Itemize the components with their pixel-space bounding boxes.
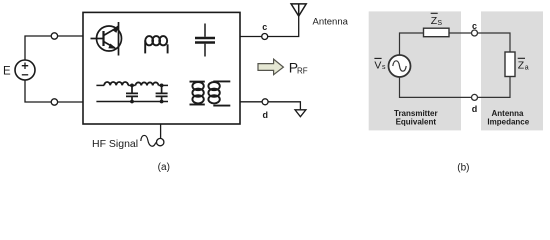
svg-text:Z: Z	[518, 60, 525, 72]
svg-text:(a): (a)	[158, 162, 170, 173]
terminal d (b)	[472, 94, 478, 100]
source Vs	[389, 55, 411, 77]
terminal c (b)	[472, 30, 478, 36]
impedance Zs	[424, 28, 450, 37]
wire box to d	[240, 101, 262, 103]
svg-text:S: S	[437, 20, 442, 27]
harmonic filter (LC low-pass)	[96, 82, 168, 103]
label Vs	[374, 58, 386, 71]
transmitter equivalent shaded panel	[369, 11, 461, 130]
wire E bottom	[25, 80, 51, 102]
label P_RF	[289, 60, 308, 76]
wire Za to d	[478, 77, 511, 98]
P_RF block arrow	[258, 59, 283, 75]
svg-text:s: s	[382, 64, 386, 71]
wire Zs to c	[449, 32, 472, 34]
svg-text:RF: RF	[297, 66, 308, 75]
svg-text:V: V	[374, 59, 381, 71]
terminal d (a)	[262, 99, 268, 105]
svg-text:HF Signal: HF Signal	[92, 138, 138, 150]
transmitter box	[83, 12, 240, 124]
label (a)	[158, 162, 170, 173]
svg-text:c: c	[472, 21, 477, 31]
antenna impedance shaded panel	[481, 11, 543, 130]
terminal top-left	[51, 33, 57, 39]
wire to box top-left	[58, 35, 83, 37]
svg-text:Equivalent: Equivalent	[396, 118, 437, 127]
wire c to antenna	[268, 16, 299, 37]
label d (a)	[263, 110, 269, 120]
label d (b)	[472, 104, 478, 114]
label Antenna	[313, 16, 349, 27]
svg-text:d: d	[263, 110, 269, 120]
wire to box bottom-left	[58, 101, 83, 103]
label HF Signal	[92, 138, 138, 150]
svg-text:E: E	[3, 66, 11, 78]
svg-text:Impedance: Impedance	[487, 118, 529, 127]
svg-text:Antenna: Antenna	[492, 109, 525, 118]
wire loop left top	[400, 33, 424, 55]
label Antenna Impedance	[487, 109, 529, 127]
wire Vs bottom to d	[400, 77, 472, 97]
label c (b)	[472, 21, 477, 31]
svg-text:Transmitter: Transmitter	[394, 109, 438, 118]
label E	[3, 66, 11, 78]
wire d to ground	[268, 102, 300, 110]
antenna symbol	[291, 4, 306, 16]
inductor L1	[145, 36, 167, 53]
ground triangle	[295, 110, 306, 117]
capacitor C1	[195, 24, 215, 57]
svg-text:a: a	[525, 64, 529, 71]
terminal bottom-left	[51, 99, 57, 105]
label (b)	[457, 162, 469, 173]
label c (a)	[262, 22, 267, 32]
wire c to Za	[478, 33, 511, 52]
svg-text:(b): (b)	[457, 162, 469, 173]
transistor Q1	[91, 22, 122, 56]
transformer T1	[190, 81, 231, 105]
wire box to c	[240, 36, 262, 38]
HF signal terminal circle	[157, 138, 164, 145]
HF signal stub wire	[160, 124, 162, 138]
svg-text:Antenna: Antenna	[313, 16, 349, 27]
svg-text:d: d	[472, 104, 478, 114]
label Za	[518, 58, 529, 71]
label Zs	[431, 13, 443, 27]
impedance Za	[505, 52, 515, 77]
voltage source E	[15, 60, 35, 80]
wire E top	[25, 36, 51, 60]
terminal c (a)	[262, 34, 268, 40]
sine squiggle	[141, 135, 156, 146]
label Transmitter Equivalent	[394, 109, 438, 127]
svg-text:c: c	[262, 22, 267, 32]
